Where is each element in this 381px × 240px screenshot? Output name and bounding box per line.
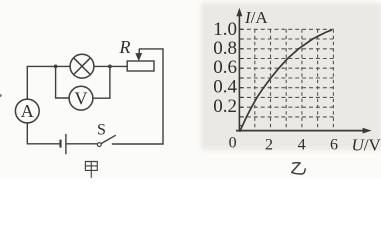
stray mark at left edge	[0, 94, 1, 97]
svg-text:6: 6	[330, 136, 338, 153]
svg-text:I/A: I/A	[244, 8, 268, 27]
switch S pivot	[97, 143, 101, 147]
svg-text:2: 2	[265, 136, 273, 153]
battery cell: long plate	[65, 134, 67, 154]
rheostat slider arrow	[135, 49, 142, 61]
battery cell: short plate	[59, 140, 61, 148]
x-axis	[236, 128, 372, 134]
label yi (caption of graph)	[292, 163, 306, 174]
x tick labels	[265, 136, 338, 153]
lamp L1	[70, 54, 94, 78]
y tick labels	[213, 19, 237, 117]
wire voltmeter left branch	[56, 66, 70, 98]
y-axis	[236, 8, 242, 131]
wire lamp-right to rheostat	[94, 65, 127, 67]
rheostat R box	[127, 61, 154, 71]
svg-text:S: S	[97, 121, 106, 138]
node junction left	[54, 65, 58, 69]
wire battery to switch pivot	[67, 143, 98, 145]
svg-text:V: V	[75, 88, 88, 108]
vertical gridlines 1..6 V	[255, 29, 334, 130]
wire lamp-left to ammeter top	[27, 66, 70, 99]
node junction right	[108, 65, 112, 69]
label jia (caption of circuit)	[85, 162, 97, 178]
svg-text:4: 4	[298, 136, 306, 153]
svg-text:A: A	[21, 101, 34, 121]
svg-text:0.6: 0.6	[213, 57, 237, 78]
svg-text:0.2: 0.2	[213, 96, 237, 117]
scanned gray paper region behind graph	[201, 3, 381, 150]
wire voltmeter right branch	[93, 66, 110, 98]
svg-text:0.4: 0.4	[213, 77, 237, 98]
wire switch right side up to rheostat slider	[112, 49, 163, 144]
svg-text:0.8: 0.8	[213, 38, 237, 59]
svg-text:U/V: U/V	[352, 136, 381, 155]
horizontal gridlines 0.1..1.0	[240, 29, 334, 117]
switch S blade	[101, 135, 116, 143]
svg-text:1.0: 1.0	[213, 19, 237, 40]
ammeter A	[15, 99, 39, 123]
svg-text:R: R	[119, 37, 131, 57]
y-axis minor ticks	[239, 29, 243, 125]
svg-text:0: 0	[229, 135, 237, 152]
voltmeter V	[69, 86, 93, 110]
wire ammeter bottom to battery	[27, 123, 59, 144]
lamp I-U curve	[240, 30, 332, 132]
